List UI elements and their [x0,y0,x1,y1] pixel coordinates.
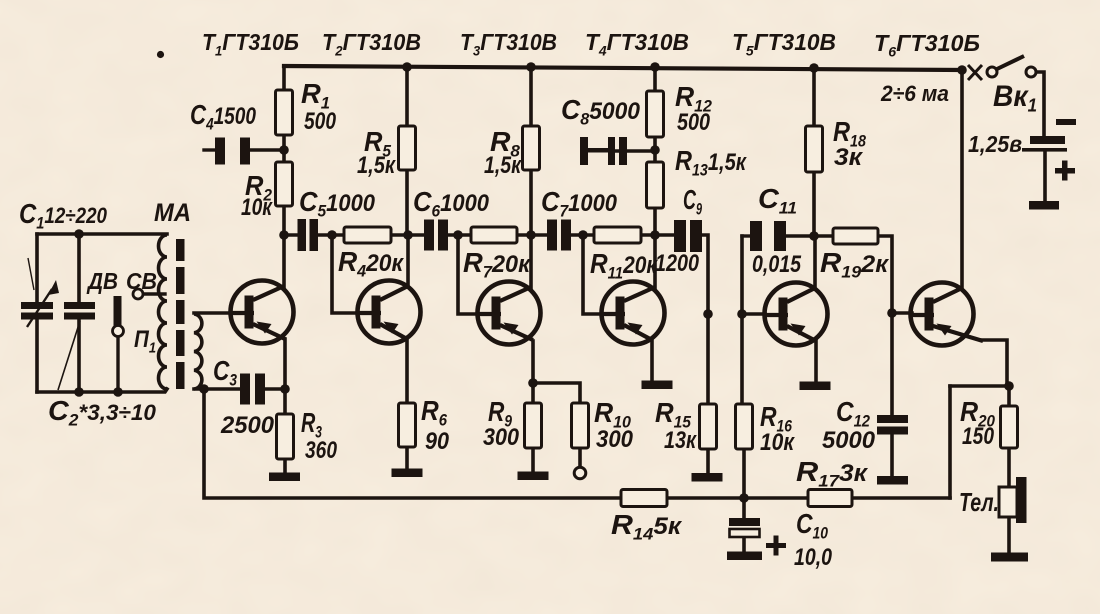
node C5-R4-T2 base [327,230,337,240]
ground under R3 [269,473,300,482]
wire to R3 [283,389,287,414]
wire T5 base to R16 [740,314,744,404]
ground under R9 [518,472,549,481]
node T2 collector [403,230,413,240]
wire R10 to terminal [578,448,582,467]
wire switch to battery [1035,72,1044,137]
wire to R9 [531,383,535,403]
node bottom bus-R16-C10 [739,493,749,503]
battery negative plate [1030,136,1065,144]
wire T2 base [332,235,359,313]
wire R9 to ground [531,448,535,472]
resistor R3 360 [277,414,294,459]
svg-text:3к: 3к [834,144,864,171]
node C6-R7-T3 base [453,230,463,240]
resistor R1 500 [276,90,293,135]
wire bus to R12 [653,67,657,91]
node T5 base-R16 [737,309,747,319]
svg-text:0,015: 0,015 [752,251,802,278]
svg-text:1,25в: 1,25в [968,131,1022,157]
transistor T6 GT310B [909,283,984,346]
wire C4 to node A [249,148,284,151]
ground battery [1029,201,1059,210]
wire T1 emitter down [283,339,287,389]
capacitor C5 1000 [298,219,319,251]
wire bottom bus mid [667,496,808,500]
resistor R5 1.5k [399,126,416,170]
speck artifact [157,51,164,58]
ground under C12 [877,476,908,485]
wire R16 to bottom node [742,449,746,498]
wire R7 to C7 [517,233,548,237]
capacitor C9 1200 [674,220,702,252]
svg-text:300: 300 [596,426,634,453]
wire P1 to bottom [116,337,119,392]
transistor T4 GT310V [600,282,665,345]
wire T2 collector [406,235,410,287]
wire to R20 [1007,386,1011,406]
wire R20 to phone [1007,448,1011,488]
ground T4 emitter [642,381,673,390]
node bus-R5 [402,62,412,72]
wire R4 to C6 [391,233,425,237]
wire emitter node [950,384,1009,388]
wire R11 to C9 [641,233,675,237]
capacitor C10 10.0 electrolytic [729,518,760,537]
wire R13 to T4 collector node [653,208,657,235]
resistor R11 20k [594,227,641,243]
wire R5 to T2 collector node [405,170,409,235]
svg-text:R420к: R420к [338,246,405,281]
ground under R6 [392,469,423,478]
wire T2 emitter to R6 [405,340,409,404]
wire phone to ground [1007,516,1011,553]
wire C5 to R4 [317,233,344,237]
svg-text:C71000: C71000 [541,186,618,221]
wire C4 left stub [204,148,216,151]
wire C12 to ground [890,434,894,476]
wire T6 base to C12 [890,313,894,415]
ground under R15 [692,473,723,482]
capacitor C1 variable 12-220 [21,280,59,327]
resistor R12 500 [647,91,664,137]
wire T3 base [458,235,479,314]
resistor R7 20k [471,227,517,243]
node antenna bottom-P1 [113,387,123,397]
switch P1 lever [114,296,122,326]
svg-text:C112÷220: C112÷220 [19,198,108,233]
svg-text:10,0: 10,0 [794,544,833,571]
svg-text:1,5к: 1,5к [484,152,522,179]
svg-text:МА: МА [154,199,191,227]
resistor R14 5k [621,490,667,507]
wire T6 collector to bus [960,70,964,289]
svg-text:Тел.: Тел. [959,487,999,517]
svg-text:СВ: СВ [126,268,157,294]
svg-text:R720к: R720к [463,247,532,282]
wire C9 to T5 base [700,235,708,314]
node bus-R8 [526,62,536,72]
svg-text:C61000: C61000 [413,186,490,221]
wire R3 to ground [283,459,287,473]
svg-text:300: 300 [483,424,520,451]
node C7-R11-T4 base [578,230,588,240]
wire T5 collector [813,236,817,289]
resistor R6 90 [399,403,416,447]
resistor R15 13k [700,404,717,449]
wire top supply bus [284,66,962,70]
wire R8 to T3 collector node [529,170,533,235]
wire R15 to ground [706,449,710,473]
svg-text:90: 90 [425,428,450,455]
wire R1-R2 node A [282,135,286,162]
resistor R18 3k [806,126,823,172]
wire coupling to C5 [284,233,298,237]
terminal under R10 [574,467,586,479]
ground under C10 [727,552,762,561]
node T6 base-C12 [887,308,897,318]
resistor R9 300 [525,403,542,448]
wire T1 collector [282,235,286,288]
battery positive plate [1022,148,1067,152]
wire SV contact to coil tap [143,292,165,295]
wire C1 bottom lead [35,319,39,392]
svg-text:ДВ: ДВ [86,268,118,294]
wire T4 collector [653,235,657,288]
battery minus sign [1056,119,1076,125]
svg-text:150: 150 [962,423,995,450]
capacitor C2 trimmer 3.3-10 [58,302,95,390]
wire to C10 [742,498,746,518]
wire T5 base lead [742,236,765,314]
switch P1 pole contact [113,326,124,337]
wire R12-R13 node [653,137,657,162]
wire C3 left [194,387,240,391]
switch Vk1 lever [997,56,1024,69]
earphone Tel [999,477,1027,523]
node bus-T6 collector [957,65,967,75]
svg-text:C51000: C51000 [299,186,376,221]
wire bottom bus right [852,496,950,500]
switch Vk1 left contact [987,67,997,77]
battery plus sign [1055,161,1075,181]
resistor R4 20k [344,227,391,243]
capacitor C8 5000 [580,137,627,165]
inductor L1 primary winding (magnetic antenna) [159,235,168,389]
svg-text:1200: 1200 [655,250,700,277]
wire R1 top [282,66,286,90]
wire T3 emitter [531,341,535,383]
node antenna bottom-C2 [74,387,84,397]
wire R6 to ground [405,447,409,469]
transistor T3 GT310V [476,282,541,345]
svg-text:2500: 2500 [220,412,275,439]
inductor L2 coupling winding [194,314,202,389]
node T6 emitter-R20 [1004,381,1014,391]
resistor R20 150 [1001,406,1018,448]
node T1 collector [279,230,289,240]
svg-text:10к: 10к [760,429,796,456]
node R12-R13-C8 [650,145,660,155]
node antenna top [74,229,84,239]
svg-text:C2*3,3÷10: C2*3,3÷10 [48,395,157,430]
wire C2 top lead [77,234,81,303]
wire down to R17 net [948,386,952,498]
node T1 emitter-C3-R3 [280,384,290,394]
resistor R16 10k [736,404,753,449]
svg-text:C41500: C41500 [190,99,257,134]
capacitor C7 1000 [547,220,571,251]
wire battery to ground [1043,151,1047,201]
wire antenna bottom [37,389,167,392]
svg-text:500: 500 [677,109,711,136]
node T5 collector-R18 [809,231,819,241]
wire antenna top [37,232,167,236]
wire C11 left [742,234,751,237]
switch SV contact [133,289,143,299]
svg-text:2÷6 ма: 2÷6 ма [880,81,949,106]
ground under earphone [991,553,1028,562]
wire C11 to R19 [786,234,833,238]
node bus-R18 [809,63,819,73]
svg-text:500: 500 [304,108,337,135]
node T3 emitter-R9-R10 [528,378,538,388]
wire T3 collector [529,235,533,288]
leader line C1 label [28,258,34,290]
resistor R17 3k [808,490,852,507]
resistor R13 1.5k [647,162,664,208]
capacitor C6 1000 [424,220,448,251]
resistor R2 10k [276,162,293,206]
svg-text:10к: 10к [241,194,273,221]
svg-text:1,5к: 1,5к [357,152,397,179]
wire C8 to R12-R13 node [615,149,655,152]
svg-text:360: 360 [305,437,338,464]
wire T5 emitter to ground [814,341,818,382]
plus sign C10 polarity [766,536,786,556]
transistor T1 GT310B [229,281,294,344]
node T3 collector [526,230,536,240]
wire T6 emitter [981,340,1007,386]
svg-text:13к: 13к [664,427,698,454]
resistor R10 300 [572,403,589,448]
wire bus to R5 [405,67,409,126]
ground T5 emitter [800,382,831,391]
capacitor C3 2500 [240,374,265,405]
resistor R8 1.5k [523,126,540,170]
svg-text:C85000: C85000 [561,94,641,129]
switch Vk1 cross mark [968,65,982,80]
capacitor C4 1500 [215,138,250,165]
transistor T2 GT310V [356,281,421,344]
wire T4 base [583,235,603,314]
capacitor C12 5000 [877,415,908,435]
wire R18 to T5 collector node [812,172,816,236]
wire C6 to R7 [447,233,471,237]
wire C3 right [264,387,285,391]
wire C1 top lead [35,234,39,303]
wire T5 base node to R15 [706,314,710,404]
svg-text:R131,5к: R131,5к [675,145,748,180]
svg-text:R1120к: R1120к [590,248,659,283]
wire bus to R8 [529,67,533,126]
wire bus to R18 [812,68,816,126]
capacitor C11 0.015 [750,221,786,251]
node T4 collector [650,230,660,240]
node bus-R12 [650,62,660,72]
wire C2 bottom lead [77,319,81,392]
svg-text:5000: 5000 [822,427,876,454]
wire bottom bus left [204,389,621,498]
ferrite core dashes [176,239,185,389]
transistor T5 GT310V [763,283,828,346]
switch Vk1 right contact [1026,67,1036,77]
node A R1-R2-C4 [279,145,289,155]
wire coil to T1 base [194,311,233,315]
wire T4 emitter to ground [650,341,654,381]
wire R2 to T1 collector node [282,206,286,235]
resistor R19 2k [833,228,878,244]
wire C10 to ground [742,537,746,552]
wire C7 to R11 [571,233,594,237]
wire T3 emitter to R10 [533,383,580,403]
node L2-C3 [199,384,209,394]
wire R19 to T6 base [878,236,912,313]
node T5 base-R15 [703,309,713,319]
